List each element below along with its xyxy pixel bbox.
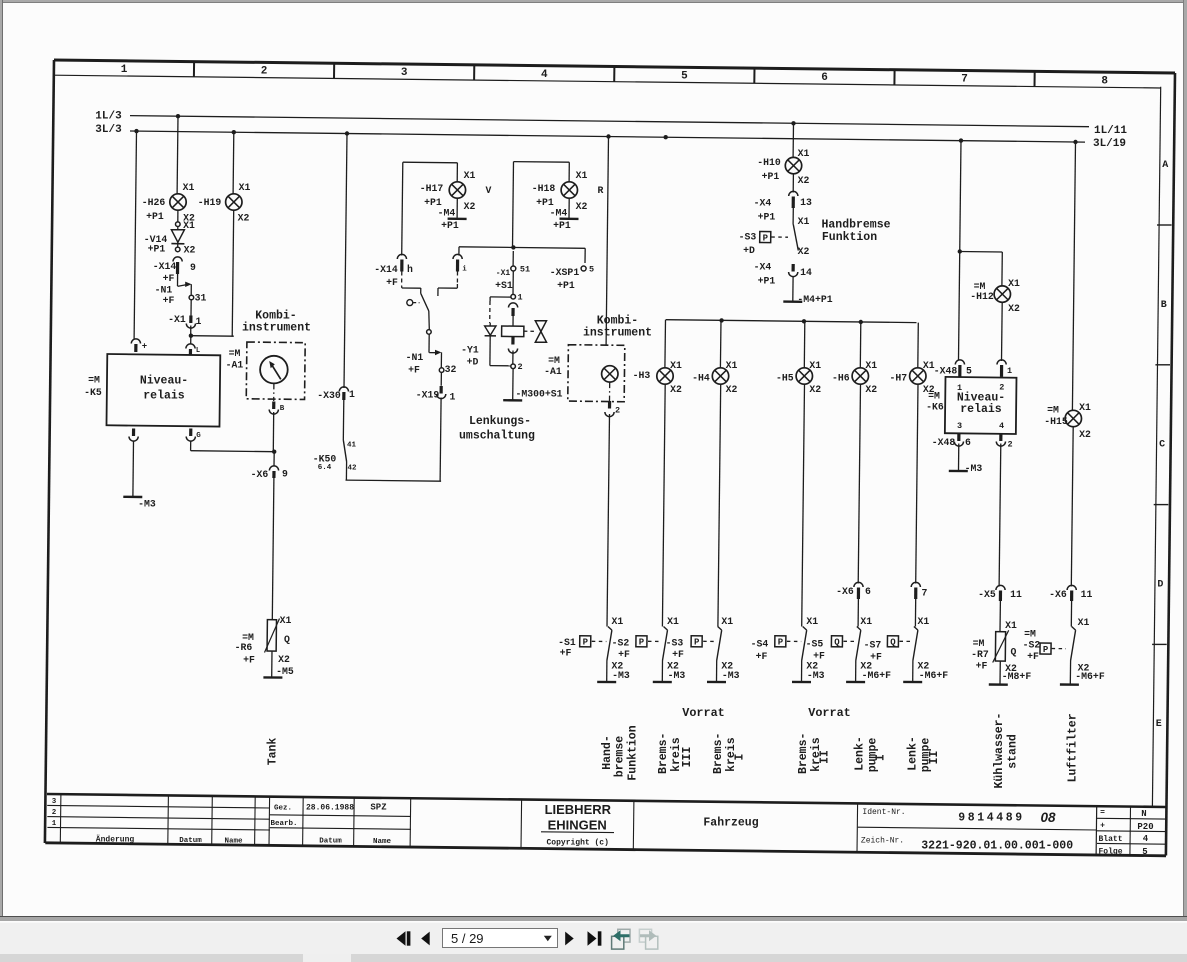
svg-text:X1: X1 xyxy=(806,616,818,627)
svg-text:Handbremse: Handbremse xyxy=(821,219,890,232)
svg-text:h: h xyxy=(407,264,413,275)
svg-text:-X1: -X1 xyxy=(496,269,511,278)
svg-text:+D: +D xyxy=(743,245,755,256)
svg-text:-S3: -S3 xyxy=(739,231,757,242)
svg-text:Folge: Folge xyxy=(1098,847,1122,856)
svg-text:-S2: -S2 xyxy=(1023,639,1041,650)
svg-text:-X30: -X30 xyxy=(317,390,341,401)
svg-text:B: B xyxy=(1161,300,1167,311)
svg-text:I: I xyxy=(734,753,747,760)
svg-text:Q: Q xyxy=(1011,646,1017,657)
svg-text:13: 13 xyxy=(800,197,812,208)
svg-text:X2: X2 xyxy=(865,384,877,395)
svg-text:Luftfilter: Luftfilter xyxy=(1067,713,1080,782)
svg-text:P: P xyxy=(1043,645,1049,655)
svg-text:X1: X1 xyxy=(239,182,251,193)
svg-text:X1: X1 xyxy=(612,616,624,627)
svg-text:+F: +F xyxy=(870,651,882,662)
svg-text:Änderung: Änderung xyxy=(96,836,135,845)
svg-text:+F: +F xyxy=(560,647,572,658)
svg-text:9814489: 9814489 xyxy=(958,811,1025,824)
svg-text:-X14: -X14 xyxy=(374,264,398,275)
svg-text:6.4: 6.4 xyxy=(318,464,332,472)
svg-text:+F: +F xyxy=(672,649,684,660)
svg-text:Brems-: Brems- xyxy=(657,733,670,774)
svg-text:X1: X1 xyxy=(1005,620,1017,631)
svg-text:1L/11: 1L/11 xyxy=(1094,125,1127,137)
svg-text:II: II xyxy=(819,750,832,764)
svg-text:-X19: -X19 xyxy=(416,389,440,400)
svg-text:+P1: +P1 xyxy=(536,197,554,208)
svg-text:E: E xyxy=(1156,719,1162,730)
svg-text:=M: =M xyxy=(548,355,560,366)
svg-text:=M: =M xyxy=(1047,404,1059,415)
svg-text:+F: +F xyxy=(163,295,175,306)
svg-text:-H3: -H3 xyxy=(633,370,651,381)
svg-text:5: 5 xyxy=(966,365,972,376)
svg-text:X2: X2 xyxy=(238,212,250,223)
svg-text:+F: +F xyxy=(163,273,175,284)
svg-text:C: C xyxy=(1159,440,1165,451)
svg-text:-M3: -M3 xyxy=(668,670,686,681)
svg-text:-M300+S1: -M300+S1 xyxy=(515,388,562,399)
svg-text:P: P xyxy=(763,234,769,244)
svg-text:+F: +F xyxy=(1027,651,1039,662)
svg-text:-M3: -M3 xyxy=(807,670,825,681)
svg-text:-S5: -S5 xyxy=(806,638,824,649)
svg-text:4: 4 xyxy=(1143,834,1149,844)
svg-text:5: 5 xyxy=(589,265,594,275)
svg-text:+F: +F xyxy=(243,654,255,665)
svg-text:2: 2 xyxy=(261,66,268,78)
svg-text:X2: X2 xyxy=(1079,429,1091,440)
svg-text:Blatt: Blatt xyxy=(1098,835,1122,844)
svg-text:6: 6 xyxy=(821,72,828,84)
svg-text:X1: X1 xyxy=(280,615,292,626)
svg-text:-K6: -K6 xyxy=(926,401,944,412)
svg-text:-X6: -X6 xyxy=(1049,589,1067,600)
svg-text:+F: +F xyxy=(756,651,768,662)
svg-text:1: 1 xyxy=(349,389,355,400)
svg-text:-M3: -M3 xyxy=(612,670,630,681)
svg-text:41: 41 xyxy=(347,442,357,450)
svg-text:+P1: +P1 xyxy=(146,211,164,222)
svg-text:-A1: -A1 xyxy=(226,359,244,370)
svg-text:Vorrat: Vorrat xyxy=(808,706,850,720)
svg-text:2: 2 xyxy=(52,809,57,817)
svg-text:Brems-: Brems- xyxy=(712,733,725,774)
svg-text:=M: =M xyxy=(229,348,241,359)
svg-text:1: 1 xyxy=(121,64,128,76)
svg-text:bremse: bremse xyxy=(613,736,626,778)
svg-text:umschaltung: umschaltung xyxy=(459,430,535,443)
svg-text:X1: X1 xyxy=(183,220,195,231)
svg-text:B: B xyxy=(280,405,285,413)
svg-text:-H19: -H19 xyxy=(198,197,222,208)
svg-text:-S3: -S3 xyxy=(666,637,684,648)
svg-text:+: + xyxy=(1100,821,1105,830)
svg-text:3: 3 xyxy=(957,421,962,431)
svg-text:1: 1 xyxy=(52,820,57,828)
svg-text:Datum: Datum xyxy=(179,837,202,845)
svg-text:i: i xyxy=(462,266,467,274)
svg-text:11: 11 xyxy=(1081,589,1093,600)
svg-text:32: 32 xyxy=(445,364,457,375)
svg-text:-H18: -H18 xyxy=(532,183,556,194)
svg-text:+S1: +S1 xyxy=(495,280,513,291)
svg-text:+: + xyxy=(142,342,147,352)
svg-text:X1: X1 xyxy=(726,360,738,371)
svg-text:-N1: -N1 xyxy=(406,352,424,363)
svg-text:+P1: +P1 xyxy=(424,197,442,208)
svg-text:+P1: +P1 xyxy=(441,220,459,231)
svg-text:+P1: +P1 xyxy=(557,280,575,291)
svg-text:-H26: -H26 xyxy=(142,197,166,208)
svg-text:-H17: -H17 xyxy=(420,183,444,194)
svg-text:-X4: -X4 xyxy=(754,261,772,272)
svg-text:+F: +F xyxy=(813,650,825,661)
svg-text:-M4: -M4 xyxy=(438,207,456,218)
svg-text:6: 6 xyxy=(965,437,971,448)
svg-text:Tank: Tank xyxy=(267,738,280,766)
svg-text:EHINGEN: EHINGEN xyxy=(548,817,607,832)
svg-text:14: 14 xyxy=(800,267,812,278)
svg-text:X1: X1 xyxy=(183,182,195,193)
svg-text:7: 7 xyxy=(961,74,968,86)
svg-text:+D: +D xyxy=(467,356,479,367)
svg-text:-K50: -K50 xyxy=(313,453,337,464)
svg-text:instrument: instrument xyxy=(242,322,311,335)
svg-text:P: P xyxy=(778,638,784,648)
svg-text:X1: X1 xyxy=(1079,402,1091,413)
svg-text:X2: X2 xyxy=(184,244,196,255)
svg-text:=M: =M xyxy=(1024,628,1036,639)
svg-text:Ident-Nr.: Ident-Nr. xyxy=(862,808,905,817)
svg-text:Funktion: Funktion xyxy=(626,725,639,780)
svg-text:-M3: -M3 xyxy=(722,670,740,681)
svg-text:R: R xyxy=(598,185,604,196)
svg-text:-X48: -X48 xyxy=(934,365,958,376)
svg-text:X1: X1 xyxy=(809,360,821,371)
svg-text:stand: stand xyxy=(1007,734,1020,769)
svg-text:Fahrzeug: Fahrzeug xyxy=(703,817,758,830)
svg-text:-X48: -X48 xyxy=(932,437,956,448)
svg-text:X2: X2 xyxy=(809,384,821,395)
svg-text:-H12: -H12 xyxy=(970,291,994,302)
svg-text:11: 11 xyxy=(1010,589,1022,600)
svg-text:X1: X1 xyxy=(667,616,679,627)
svg-text:-H10: -H10 xyxy=(757,157,781,168)
svg-text:-M8+F: -M8+F xyxy=(1002,671,1032,682)
svg-text:-S2: -S2 xyxy=(612,637,630,648)
svg-text:P: P xyxy=(639,638,645,648)
svg-text:-X4: -X4 xyxy=(754,197,772,208)
svg-text:-N1: -N1 xyxy=(155,284,173,295)
svg-text:1L/3: 1L/3 xyxy=(95,110,122,122)
svg-text:+P1: +P1 xyxy=(758,211,776,222)
svg-text:3221-920.01.00.001-000: 3221-920.01.00.001-000 xyxy=(921,840,1073,853)
svg-text:42: 42 xyxy=(347,464,357,472)
svg-text:-M3: -M3 xyxy=(965,463,983,474)
svg-text:-M3: -M3 xyxy=(138,498,156,509)
svg-text:L: L xyxy=(196,347,200,355)
svg-text:-H5: -H5 xyxy=(776,372,794,383)
svg-text:+F: +F xyxy=(408,364,420,375)
svg-text:Lenk-: Lenk- xyxy=(907,736,920,771)
svg-text:X1: X1 xyxy=(576,170,588,181)
svg-text:-A1: -A1 xyxy=(544,366,562,377)
svg-text:X1: X1 xyxy=(918,616,930,627)
svg-text:Vorrat: Vorrat xyxy=(682,706,724,720)
svg-text:X1: X1 xyxy=(670,360,682,371)
svg-text:II: II xyxy=(928,751,941,765)
svg-text:6: 6 xyxy=(865,586,871,597)
svg-text:3: 3 xyxy=(401,67,408,79)
svg-text:-M6+F: -M6+F xyxy=(862,670,892,681)
svg-text:X2: X2 xyxy=(464,201,476,212)
svg-text:-M6+F: -M6+F xyxy=(1075,671,1105,682)
svg-text:-X6: -X6 xyxy=(251,469,269,480)
svg-text:Datum: Datum xyxy=(319,837,342,845)
svg-text:-R6: -R6 xyxy=(235,642,253,653)
svg-text:X2: X2 xyxy=(670,384,682,395)
svg-text:Kühlwasser-: Kühlwasser- xyxy=(993,713,1006,789)
svg-text:=: = xyxy=(1100,808,1105,817)
svg-text:Zeich-Nr.: Zeich-Nr. xyxy=(861,836,904,845)
svg-text:1: 1 xyxy=(450,391,456,402)
svg-text:-H4: -H4 xyxy=(692,372,710,383)
svg-text:-X6: -X6 xyxy=(836,586,854,597)
svg-text:-R7: -R7 xyxy=(971,649,989,660)
svg-text:5: 5 xyxy=(681,71,688,83)
svg-text:-M4+P1: -M4+P1 xyxy=(797,294,832,305)
svg-text:-X14: -X14 xyxy=(153,261,177,272)
svg-text:9: 9 xyxy=(190,262,196,273)
svg-text:51: 51 xyxy=(520,265,530,275)
svg-text:X1: X1 xyxy=(865,360,877,371)
svg-text:X2: X2 xyxy=(726,384,738,395)
svg-text:Lenkungs-: Lenkungs- xyxy=(469,415,531,428)
svg-text:Lenk-: Lenk- xyxy=(854,736,867,771)
svg-text:Brems-: Brems- xyxy=(797,733,810,774)
svg-text:-S7: -S7 xyxy=(864,639,882,650)
svg-text:=M: =M xyxy=(88,374,100,385)
svg-text:4: 4 xyxy=(541,69,548,81)
svg-text:3L/3: 3L/3 xyxy=(95,124,122,136)
svg-text:3: 3 xyxy=(52,798,57,806)
svg-text:Q: Q xyxy=(834,638,840,648)
svg-text:X2: X2 xyxy=(576,201,588,212)
svg-text:Name: Name xyxy=(373,838,392,846)
svg-text:X1: X1 xyxy=(798,216,810,227)
svg-text:-M5: -M5 xyxy=(276,666,294,677)
svg-text:SPZ: SPZ xyxy=(370,802,386,812)
svg-text:2: 2 xyxy=(615,406,620,416)
svg-text:D: D xyxy=(1157,579,1163,590)
svg-text:1: 1 xyxy=(1007,366,1012,376)
svg-text:Copyright (c): Copyright (c) xyxy=(546,839,608,848)
svg-text:4: 4 xyxy=(999,421,1004,431)
svg-text:relais: relais xyxy=(143,390,185,403)
svg-text:+F: +F xyxy=(976,660,988,671)
svg-text:+P1: +P1 xyxy=(758,275,776,286)
svg-text:Bearb.: Bearb. xyxy=(270,820,297,828)
svg-text:V: V xyxy=(486,185,492,196)
svg-text:+F: +F xyxy=(618,649,630,660)
svg-text:-X1: -X1 xyxy=(168,314,186,325)
svg-text:G: G xyxy=(196,432,201,440)
svg-text:A: A xyxy=(1162,160,1168,171)
svg-text:X1: X1 xyxy=(721,616,733,627)
svg-text:I: I xyxy=(875,754,888,761)
svg-text:P: P xyxy=(583,638,589,648)
svg-text:Funktion: Funktion xyxy=(822,231,877,244)
svg-text:8: 8 xyxy=(1101,75,1108,87)
svg-text:+P1: +P1 xyxy=(148,243,166,254)
svg-text:Gez.: Gez. xyxy=(274,804,292,812)
svg-text:2: 2 xyxy=(1007,440,1012,450)
svg-text:9: 9 xyxy=(282,468,288,479)
svg-text:Niveau-: Niveau- xyxy=(140,375,188,388)
svg-text:28.06.1988: 28.06.1988 xyxy=(306,803,354,812)
svg-text:2: 2 xyxy=(517,362,522,372)
svg-text:+P1: +P1 xyxy=(762,171,780,182)
svg-text:1: 1 xyxy=(196,316,202,327)
svg-text:III: III xyxy=(681,747,694,768)
svg-text:instrument: instrument xyxy=(583,326,652,339)
svg-text:X2: X2 xyxy=(1008,303,1020,314)
svg-text:1: 1 xyxy=(517,293,522,303)
svg-text:-M4: -M4 xyxy=(550,207,568,218)
svg-text:X1: X1 xyxy=(798,148,810,159)
svg-text:LIEBHERR: LIEBHERR xyxy=(545,802,612,817)
svg-text:X1: X1 xyxy=(464,170,476,181)
svg-text:-M6+F: -M6+F xyxy=(919,670,949,681)
svg-text:3L/19: 3L/19 xyxy=(1093,138,1126,150)
svg-text:=M: =M xyxy=(928,390,940,401)
svg-text:-X5: -X5 xyxy=(978,589,996,600)
svg-text:-XSP1: -XSP1 xyxy=(550,267,580,278)
svg-text:-H7: -H7 xyxy=(889,372,907,383)
svg-text:P20: P20 xyxy=(1137,822,1153,832)
svg-text:+P1: +P1 xyxy=(553,220,571,231)
svg-text:X2: X2 xyxy=(798,246,810,257)
svg-text:+F: +F xyxy=(386,277,398,288)
svg-text:Q: Q xyxy=(890,638,896,648)
svg-text:-S1: -S1 xyxy=(558,637,576,648)
svg-text:relais: relais xyxy=(960,403,1002,416)
svg-text:-K5: -K5 xyxy=(84,387,102,398)
svg-text:X1: X1 xyxy=(1078,617,1090,628)
svg-text:Hand-: Hand- xyxy=(601,735,614,770)
svg-text:-H6: -H6 xyxy=(832,372,850,383)
svg-text:08: 08 xyxy=(1040,810,1056,825)
svg-text:-Y1: -Y1 xyxy=(461,344,479,355)
svg-text:Q: Q xyxy=(284,634,290,645)
svg-text:Name: Name xyxy=(224,837,243,845)
svg-text:-H15: -H15 xyxy=(1044,416,1068,427)
svg-text:5: 5 xyxy=(1142,847,1147,857)
svg-text:X1: X1 xyxy=(860,616,872,627)
svg-text:7: 7 xyxy=(922,587,928,598)
svg-text:X2: X2 xyxy=(278,654,290,665)
svg-text:=M: =M xyxy=(973,638,985,649)
svg-text:-S4: -S4 xyxy=(751,638,769,649)
svg-text:N: N xyxy=(1141,809,1146,819)
svg-text:31: 31 xyxy=(195,292,207,303)
svg-text:X2: X2 xyxy=(798,175,810,186)
svg-text:X1: X1 xyxy=(1008,278,1020,289)
svg-text:P: P xyxy=(694,638,700,648)
